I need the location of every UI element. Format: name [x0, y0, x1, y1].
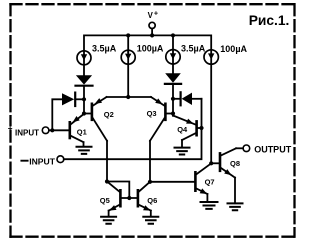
node mirror base center — [127, 196, 131, 200]
node Q5 collector junction — [105, 179, 109, 183]
wire mirror base tie (L shape) — [107, 182, 129, 199]
node B (Q1 emitter / Q2 base) — [82, 111, 86, 115]
svg-text:100µA: 100µA — [137, 43, 164, 53]
OUTPUT terminal — [243, 145, 250, 152]
ground (Q5 emitter) — [101, 217, 116, 224]
node C (D4 cathode junction) — [171, 97, 175, 101]
current source I2 100uA — [121, 50, 135, 64]
svg-text:Q1: Q1 — [77, 127, 87, 136]
wire Q3 collector drop — [149, 141, 151, 182]
wire V+ stub — [151, 29, 153, 36]
current source I4 100uA — [204, 50, 218, 64]
wire top supply rail — [84, 35, 211, 75]
ground (Q7 emitter) — [201, 202, 218, 209]
wire D3 anode down to +input — [52, 99, 62, 130]
wire D4 anode to -input riser — [192, 98, 202, 100]
minus input label — [21, 160, 27, 162]
wire -input run to riser up to Q4 base and D4 — [64, 99, 202, 159]
transistor Q4 (PNP, mirrored) — [195, 121, 198, 135]
wire I4 drop to Q8 base — [210, 64, 212, 163]
svg-text:Q6: Q6 — [147, 196, 157, 205]
wire common emitter tail — [107, 96, 151, 98]
svg-text:Q8: Q8 — [230, 159, 240, 168]
diode D3 (clamp, pointing right) — [62, 93, 74, 105]
node Q8 base junction — [209, 161, 213, 165]
ground (Q4 collector) — [175, 148, 190, 155]
svg-text:Q3: Q3 — [147, 109, 157, 118]
wire D4 cathode to node C — [173, 98, 180, 100]
node rail-CS3 — [171, 33, 175, 37]
wire +input to Q1 base — [49, 129, 69, 131]
svg-text:100µA: 100µA — [220, 44, 247, 54]
svg-text:OUTPUT: OUTPUT — [254, 144, 292, 154]
node tail junction — [126, 95, 130, 99]
svg-text:+: + — [8, 124, 13, 133]
ground (Q6 emitter) — [143, 217, 158, 224]
V+ terminal — [149, 22, 155, 28]
transistor Q3 (PNP, mirrored) — [164, 104, 167, 120]
transistor Q7 (NPN) — [194, 172, 197, 190]
wire Q8 base — [211, 162, 219, 164]
diode D4 (clamp, pointing left) — [182, 93, 192, 105]
current source I1 3.5uA — [77, 51, 91, 65]
svg-text:Q5: Q5 — [100, 196, 110, 205]
node D (Q3 base) — [171, 111, 175, 115]
wire I2 down to tail — [127, 52, 129, 97]
transistor Q2 (PNP) — [91, 104, 94, 120]
transistor Q1 (PNP input) — [69, 122, 72, 138]
wire D3 cathode to node A — [76, 98, 84, 100]
ground (Q1 collector) — [77, 147, 92, 154]
svg-text:Рис.1.: Рис.1. — [249, 13, 290, 28]
transistor Q5 (NPN diode-connected, mirrored) — [119, 190, 122, 206]
svg-text:INPUT: INPUT — [29, 157, 56, 167]
current source I3 3.5uA — [166, 50, 180, 64]
wire D2 to node C — [172, 85, 174, 116]
node V+ rail junction — [150, 33, 154, 37]
-INPUT terminal — [57, 156, 64, 163]
svg-text:Q2: Q2 — [104, 110, 114, 119]
wire D1 to node A — [83, 87, 85, 114]
+INPUT terminal — [42, 127, 49, 134]
transistor Q8 (NPN output) — [219, 153, 222, 170]
node Q4 base junction — [199, 126, 203, 130]
svg-text:Q4: Q4 — [177, 125, 188, 134]
diode D1 (series, down) — [76, 75, 92, 84]
svg-text:+: + — [154, 9, 158, 18]
node rail-CS2 — [126, 33, 130, 37]
ground (Q8 emitter) — [228, 203, 243, 210]
wire Q2 collector drop — [106, 141, 108, 182]
wire Q6 collector node to Q7 base — [150, 181, 194, 183]
svg-text:3.5µA: 3.5µA — [92, 44, 117, 54]
svg-text:3.5µA: 3.5µA — [181, 44, 206, 54]
node +input/D3 junction — [50, 128, 54, 132]
svg-text:Q7: Q7 — [205, 177, 215, 186]
node A (D1h cathode junction) — [82, 97, 86, 101]
svg-text:INPUT: INPUT — [15, 128, 39, 137]
diode D2 (series, down) — [165, 73, 181, 83]
node Q6 collector junction — [148, 180, 152, 184]
svg-text:V: V — [148, 11, 154, 20]
border frame — [11, 3, 295, 5]
wire Q8 collector to output — [236, 147, 243, 149]
transistor Q6 (NPN) — [137, 190, 140, 206]
